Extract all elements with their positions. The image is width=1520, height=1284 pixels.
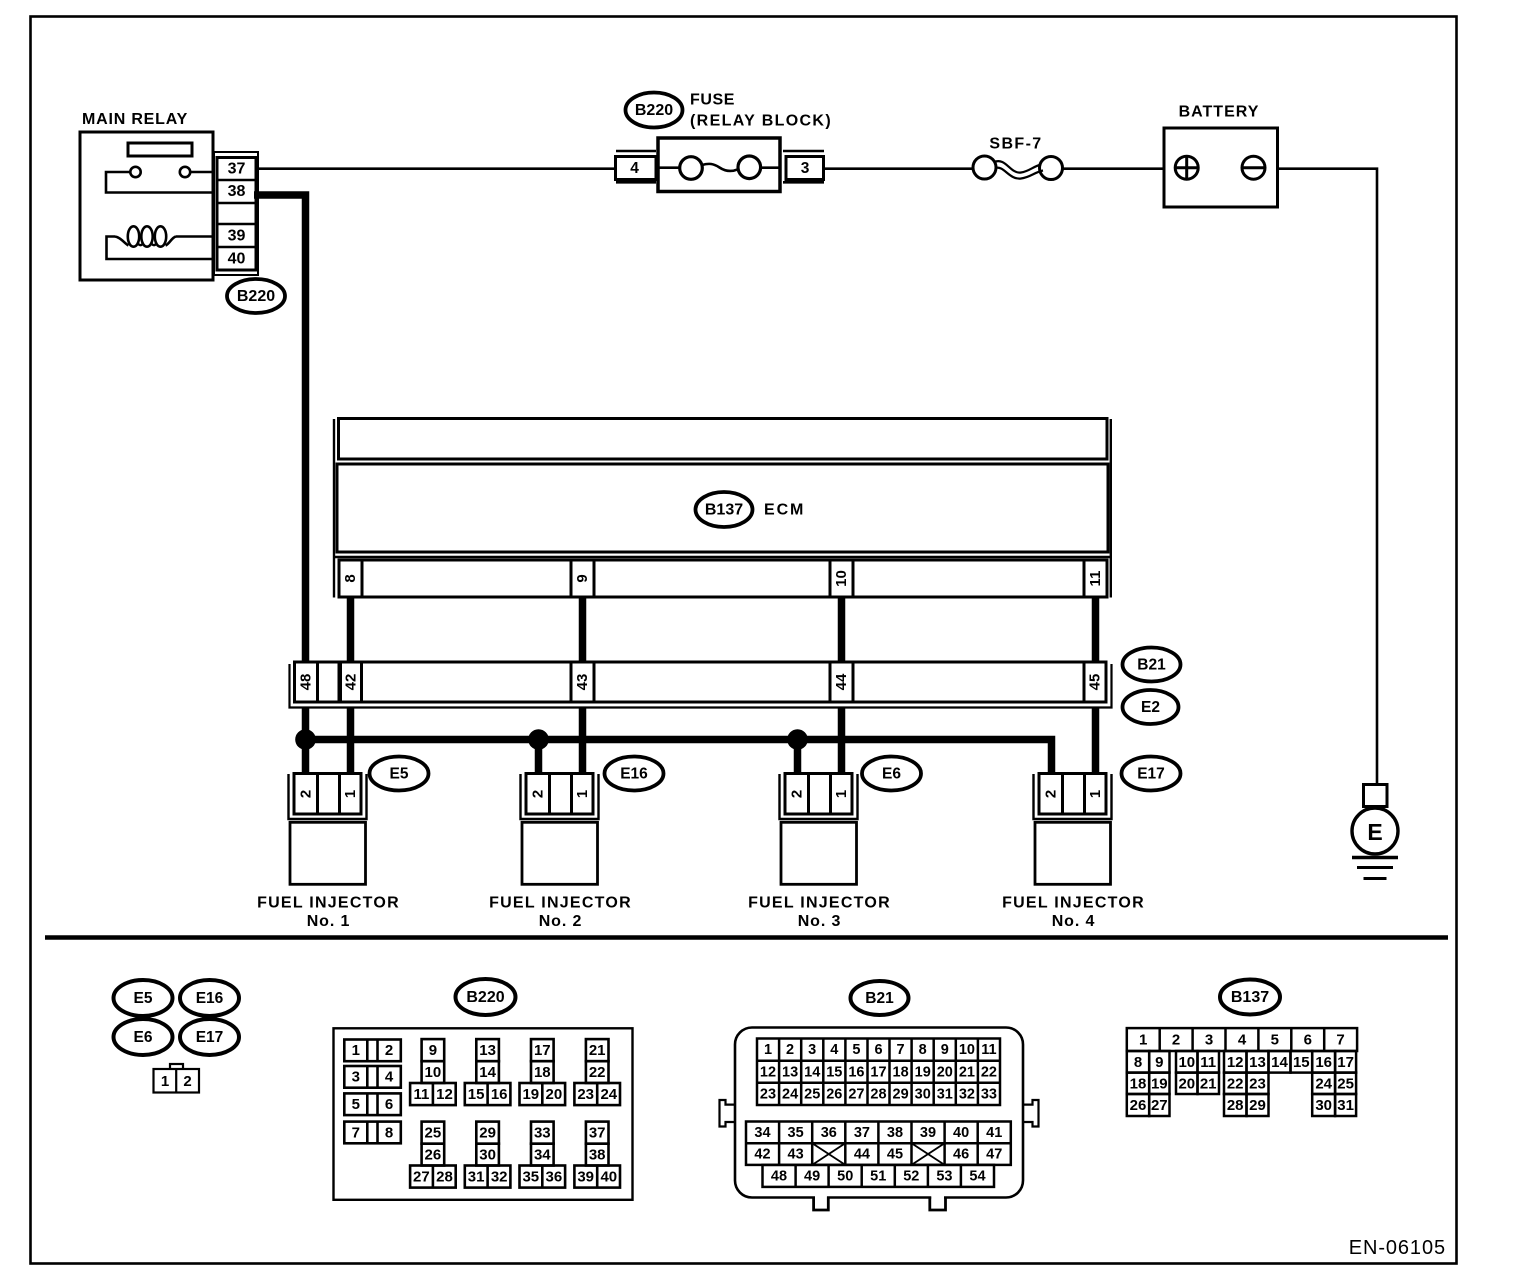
svg-text:22: 22: [1227, 1075, 1244, 1092]
svg-text:44: 44: [833, 673, 850, 690]
wire B21 to injector pin1: [347, 703, 355, 778]
svg-text:26: 26: [1130, 1097, 1147, 1114]
fuse body: [658, 138, 780, 192]
svg-text:48: 48: [771, 1168, 787, 1184]
B21 face right tab: [1023, 1100, 1039, 1127]
svg-text:14: 14: [479, 1064, 496, 1081]
svg-text:35: 35: [522, 1168, 539, 1185]
B21 connector face box: [735, 1028, 1023, 1198]
svg-text:10: 10: [833, 570, 850, 587]
relay coil L1: [128, 226, 139, 246]
B220 pins 33-36: [520, 1122, 566, 1188]
svg-text:E17: E17: [196, 1029, 224, 1046]
wire battery minus to ground drop: [1265, 169, 1377, 786]
fuel injector No. 1 connector housing: [289, 774, 367, 819]
connector E16 oval: [605, 757, 664, 791]
svg-text:7: 7: [897, 1042, 905, 1058]
svg-text:23: 23: [577, 1086, 594, 1103]
connector E2 oval: [1123, 690, 1179, 724]
svg-text:6: 6: [1304, 1032, 1312, 1049]
svg-text:38: 38: [228, 183, 246, 200]
svg-text:38: 38: [589, 1146, 606, 1163]
svg-text:4: 4: [830, 1042, 838, 1058]
relay coil bottom arc 1: [138, 244, 143, 246]
wire ECM pin drop: [838, 597, 846, 665]
svg-text:B220: B220: [635, 102, 673, 119]
B137 pins 1-7 row: [1127, 1028, 1357, 1051]
thick wire relay pin38 down left side: [254, 195, 306, 740]
B21 pins 34-47 grid: [746, 1122, 1011, 1165]
svg-text:42: 42: [343, 674, 360, 691]
B137 pins 8-17 row: [1127, 1051, 1356, 1073]
svg-text:32: 32: [959, 1086, 975, 1102]
svg-text:E17: E17: [1137, 766, 1165, 783]
section divider line: [45, 935, 1448, 940]
relay MAIN RELAY label: [82, 111, 188, 128]
svg-text:18: 18: [534, 1064, 551, 1081]
connector E5 oval (legend): [114, 980, 173, 1016]
SBF-7 link wave upper: [994, 161, 1041, 173]
svg-text:37: 37: [854, 1125, 870, 1141]
svg-text:2: 2: [1042, 790, 1059, 798]
svg-text:19: 19: [1151, 1075, 1168, 1092]
svg-text:E5: E5: [134, 990, 153, 1007]
svg-text:23: 23: [760, 1086, 776, 1102]
connector E17 oval (legend): [180, 1019, 239, 1055]
relay coil wire to pin 39: [176, 235, 213, 238]
relay coil L2: [141, 226, 152, 246]
svg-text:33: 33: [534, 1124, 551, 1141]
connector E17 oval: [1122, 757, 1181, 791]
fuel injector No. 1 connector cells: [294, 774, 361, 815]
injector pin 1: [342, 790, 359, 798]
svg-text:19: 19: [915, 1064, 931, 1080]
svg-text:22: 22: [981, 1064, 997, 1080]
wire pin37 to fuse pin4: [256, 167, 616, 170]
svg-text:14: 14: [1271, 1054, 1288, 1071]
svg-text:26: 26: [425, 1146, 442, 1163]
connector B220 oval (legend): [456, 979, 516, 1015]
relay fixed contact bar: [128, 143, 192, 156]
svg-text:34: 34: [534, 1146, 551, 1163]
B21 face left tab: [720, 1100, 736, 1127]
B220 pins 25-28: [410, 1122, 456, 1188]
svg-text:13: 13: [479, 1042, 496, 1059]
fuel injector No. 1 label: [257, 895, 400, 912]
ground bar 1: [1352, 856, 1398, 859]
svg-text:B137: B137: [705, 502, 743, 519]
svg-text:49: 49: [804, 1168, 820, 1184]
svg-text:15: 15: [826, 1064, 842, 1080]
svg-text:21: 21: [1200, 1075, 1217, 1092]
wire ECM pin drop: [1092, 597, 1100, 665]
B21 blocked cavity X: [912, 1143, 945, 1165]
wire ECM pin drop: [579, 597, 587, 665]
svg-text:1: 1: [764, 1042, 772, 1058]
figure number EN-06105: [1349, 1237, 1446, 1259]
svg-text:22: 22: [589, 1064, 606, 1081]
fuse element circle right: [738, 156, 761, 179]
wire bus to injector pin2: [794, 740, 802, 779]
svg-text:36: 36: [821, 1125, 837, 1141]
svg-text:53: 53: [936, 1168, 952, 1184]
svg-text:FUEL INJECTOR: FUEL INJECTOR: [489, 895, 632, 912]
ECM label: [764, 502, 805, 519]
ECM strip cell pin 9: [571, 560, 594, 597]
relay contact wire right to pin 37: [190, 171, 215, 174]
svg-text:38: 38: [887, 1125, 903, 1141]
fuse element circle left: [680, 157, 703, 180]
svg-text:E16: E16: [620, 766, 648, 783]
B21 strip blank cell divider: [338, 662, 341, 702]
svg-text:(RELAY BLOCK): (RELAY BLOCK): [690, 113, 832, 130]
svg-text:31: 31: [1337, 1097, 1354, 1114]
svg-text:B220: B220: [466, 989, 504, 1006]
B220 pins 9-12: [410, 1039, 456, 1105]
svg-text:30: 30: [1315, 1097, 1332, 1114]
svg-text:1: 1: [1087, 790, 1104, 798]
svg-text:17: 17: [1337, 1054, 1354, 1071]
svg-text:9: 9: [429, 1042, 437, 1059]
svg-text:54: 54: [969, 1168, 985, 1184]
fuel injector No. 3 connector housing: [780, 774, 858, 819]
svg-text:31: 31: [468, 1168, 485, 1185]
svg-text:51: 51: [870, 1168, 886, 1184]
svg-text:35: 35: [788, 1125, 804, 1141]
B220 pins 17-20: [520, 1039, 566, 1105]
svg-text:11: 11: [981, 1042, 996, 1058]
fuse element stub left: [659, 166, 681, 169]
svg-text:16: 16: [491, 1086, 508, 1103]
battery box: [1164, 128, 1278, 207]
injector connector face tab: [170, 1064, 183, 1070]
svg-text:28: 28: [870, 1086, 886, 1102]
injector pin 1: [833, 790, 850, 798]
svg-text:No. 2: No. 2: [539, 913, 583, 930]
svg-text:24: 24: [782, 1086, 798, 1102]
B21 pins 48-54 row: [763, 1165, 995, 1187]
B220 pins 21-24: [574, 1039, 620, 1105]
BATTERY label: [1179, 104, 1260, 121]
svg-text:10: 10: [959, 1042, 975, 1058]
svg-text:2: 2: [1172, 1032, 1180, 1049]
svg-text:43: 43: [574, 674, 591, 691]
connector B21 oval (legend): [851, 981, 909, 1015]
svg-text:4: 4: [385, 1069, 394, 1086]
svg-text:12: 12: [436, 1086, 453, 1103]
fuel injector No. 2 label: [489, 895, 632, 912]
B21 E2 connector strip box: [295, 662, 1107, 702]
svg-text:3: 3: [352, 1069, 360, 1086]
svg-text:BATTERY: BATTERY: [1179, 104, 1260, 121]
B220 pins 13-16: [465, 1039, 511, 1105]
svg-text:FUEL INJECTOR: FUEL INJECTOR: [257, 895, 400, 912]
svg-text:7: 7: [1336, 1032, 1344, 1049]
relay contact circle 2: [180, 167, 190, 177]
svg-text:2: 2: [297, 790, 314, 798]
svg-text:45: 45: [1087, 674, 1104, 691]
svg-text:29: 29: [893, 1086, 909, 1102]
ECM pin strip outer top line: [334, 556, 1111, 558]
injector pin 2: [1042, 790, 1059, 798]
fuel injector No. 1 body: [290, 822, 366, 884]
svg-text:B21: B21: [865, 990, 894, 1007]
B137 pins 18-25 row: [1127, 1073, 1356, 1094]
svg-text:15: 15: [468, 1086, 485, 1103]
svg-text:13: 13: [782, 1064, 798, 1080]
svg-text:30: 30: [915, 1086, 931, 1102]
fuel injector No. 3 body: [781, 822, 857, 884]
B21 face bottom tab 1: [814, 1194, 829, 1210]
svg-text:11: 11: [1087, 571, 1104, 587]
svg-text:37: 37: [228, 161, 246, 178]
svg-text:18: 18: [893, 1064, 909, 1080]
ground terminal square: [1364, 785, 1388, 807]
svg-text:9: 9: [941, 1042, 949, 1058]
svg-text:28: 28: [436, 1168, 453, 1185]
svg-text:25: 25: [425, 1124, 442, 1141]
ECM top header box: [339, 419, 1108, 460]
svg-text:11: 11: [413, 1086, 429, 1103]
B21 strip cell pin 44: [830, 662, 853, 702]
relay coil dip left: [115, 237, 129, 246]
svg-text:9: 9: [574, 574, 591, 582]
connector B137 oval: [696, 492, 753, 527]
svg-text:44: 44: [854, 1147, 870, 1163]
svg-text:2: 2: [786, 1042, 794, 1058]
fuse pin 3 rails: [783, 150, 824, 153]
thick bus wire injector pin2 net: [306, 740, 1052, 777]
wire bus to injector pin2: [535, 740, 543, 779]
svg-text:6: 6: [874, 1042, 882, 1058]
svg-text:24: 24: [1315, 1075, 1332, 1092]
svg-text:No. 1: No. 1: [307, 913, 351, 930]
svg-text:52: 52: [903, 1168, 919, 1184]
ECM outer housing right line: [1110, 419, 1112, 598]
wire B21 to injector pin1: [838, 703, 846, 778]
injector pin 1: [574, 790, 591, 798]
svg-text:2: 2: [183, 1073, 191, 1090]
svg-text:27: 27: [1151, 1097, 1168, 1114]
svg-text:18: 18: [1130, 1075, 1147, 1092]
wire ECM pin drop: [347, 597, 355, 665]
fuel injector No. 3 label: [748, 895, 891, 912]
fuel injector No. 2 connector cells: [526, 774, 593, 815]
svg-text:4: 4: [630, 160, 639, 177]
fuel injector No. 4 connector housing: [1034, 774, 1112, 819]
B220 pins 1,2: [344, 1040, 401, 1062]
svg-text:34: 34: [754, 1125, 770, 1141]
svg-text:8: 8: [385, 1124, 393, 1141]
ground bar 2: [1357, 866, 1393, 869]
svg-text:FUSE: FUSE: [690, 92, 735, 109]
fuse element wave: [702, 164, 738, 171]
fuel injector No. 3 connector cells: [785, 774, 852, 815]
svg-text:1: 1: [352, 1042, 360, 1059]
svg-text:46: 46: [953, 1147, 969, 1163]
connector B220 oval at relay: [227, 279, 285, 313]
svg-text:No. 4: No. 4: [1052, 913, 1096, 930]
relay connector cell divider: [217, 223, 256, 226]
svg-text:1: 1: [574, 790, 591, 798]
svg-text:E6: E6: [882, 766, 901, 783]
svg-text:50: 50: [837, 1168, 853, 1184]
B137 pins 26-31 row: [1127, 1094, 1356, 1116]
B220 pins 3,4: [344, 1066, 401, 1088]
svg-text:29: 29: [479, 1124, 496, 1141]
svg-text:13: 13: [1249, 1054, 1266, 1071]
svg-text:12: 12: [760, 1064, 776, 1080]
fuel injector No. 4 connector cells: [1039, 774, 1106, 815]
svg-text:6: 6: [385, 1096, 393, 1113]
svg-text:B21: B21: [1137, 657, 1166, 674]
wire bus to injector pin2: [302, 740, 310, 779]
relay box: [80, 132, 213, 280]
svg-text:12: 12: [1227, 1054, 1244, 1071]
connector B220 oval at fuse: [626, 93, 683, 128]
svg-text:26: 26: [826, 1086, 842, 1102]
SBF-7 label: [989, 136, 1042, 153]
relay connector cell divider: [217, 179, 256, 182]
injector connector face: [154, 1069, 200, 1093]
svg-text:No. 3: No. 3: [798, 913, 842, 930]
wire B21 to injector pin1: [579, 703, 587, 778]
wire junction dot: [295, 729, 316, 750]
svg-text:10: 10: [1178, 1054, 1195, 1071]
svg-text:19: 19: [522, 1086, 539, 1103]
injector pin 1: [1087, 790, 1104, 798]
svg-text:SBF-7: SBF-7: [989, 136, 1042, 153]
svg-text:29: 29: [1249, 1097, 1266, 1114]
svg-text:10: 10: [425, 1064, 442, 1081]
ECM outer housing left line: [333, 419, 335, 598]
fuse pin 4: [616, 157, 657, 180]
svg-text:8: 8: [1134, 1054, 1142, 1071]
connector E5 oval: [370, 757, 429, 791]
svg-text:21: 21: [589, 1042, 606, 1059]
svg-text:1: 1: [1139, 1032, 1147, 1049]
relay connector cell divider: [217, 202, 256, 205]
fuse element stub right: [759, 166, 779, 169]
svg-text:48: 48: [298, 674, 315, 691]
relay coil wire to pin 40: [107, 237, 214, 260]
svg-text:20: 20: [546, 1086, 563, 1103]
wire B21 to injector pin1: [1092, 703, 1100, 778]
B220 pins 29-32: [465, 1122, 511, 1188]
battery minus terminal: [1242, 156, 1265, 179]
fuel injector No. 2 body: [522, 822, 598, 884]
injector pin 2: [788, 790, 805, 798]
svg-text:20: 20: [1178, 1075, 1195, 1092]
svg-text:2: 2: [529, 790, 546, 798]
svg-text:43: 43: [788, 1147, 804, 1163]
B220 pins 7,8: [344, 1122, 401, 1144]
pin 38: [228, 183, 246, 200]
SBF-7 link wave lower: [995, 168, 1043, 179]
svg-text:2: 2: [788, 790, 805, 798]
svg-text:9: 9: [1155, 1054, 1163, 1071]
svg-text:33: 33: [981, 1086, 997, 1102]
fuel injector No. 4 label: [1002, 895, 1145, 912]
svg-text:42: 42: [754, 1147, 770, 1163]
svg-text:MAIN RELAY: MAIN RELAY: [82, 111, 188, 128]
connector B137 oval (legend): [1220, 980, 1280, 1015]
wire junction dot: [787, 729, 808, 750]
relay connector cells box: [217, 158, 256, 271]
svg-text:36: 36: [546, 1168, 563, 1185]
connector E16 oval (legend): [180, 980, 239, 1016]
relay contact circle 1: [130, 167, 140, 177]
B21 strip cell pin 42: [341, 662, 362, 702]
svg-text:39: 39: [577, 1168, 594, 1185]
svg-text:32: 32: [491, 1168, 508, 1185]
SBF-7 circle left: [973, 156, 996, 179]
svg-text:40: 40: [228, 250, 246, 267]
relay coil L3: [155, 226, 166, 246]
svg-text:1: 1: [833, 790, 850, 798]
B21 strip cell pin 43: [571, 662, 594, 702]
B21 strip cell pin 45: [1083, 662, 1086, 702]
SBF-7 circle right: [1040, 157, 1063, 180]
B220 pins 5,6: [344, 1093, 401, 1115]
svg-text:27: 27: [848, 1086, 864, 1102]
face pin 2: [183, 1073, 191, 1090]
B21 E2 connector strip outer housing: [290, 664, 1112, 708]
injector pin 2: [297, 790, 314, 798]
svg-text:1: 1: [342, 790, 359, 798]
connector B21 oval: [1123, 648, 1181, 682]
svg-text:1: 1: [161, 1073, 169, 1090]
svg-text:3: 3: [801, 160, 810, 177]
svg-text:20: 20: [937, 1064, 953, 1080]
svg-text:27: 27: [413, 1168, 430, 1185]
svg-text:5: 5: [852, 1042, 860, 1058]
wire SBF-7 to battery: [1063, 167, 1166, 170]
svg-text:40: 40: [600, 1168, 617, 1185]
svg-text:31: 31: [937, 1086, 953, 1102]
svg-text:3: 3: [808, 1042, 816, 1058]
fuel injector No. 2 connector housing: [521, 774, 599, 819]
svg-text:7: 7: [352, 1124, 360, 1141]
svg-text:30: 30: [479, 1146, 496, 1163]
svg-text:40: 40: [953, 1125, 969, 1141]
svg-text:47: 47: [986, 1147, 1002, 1163]
B21 strip cell pin 48: [316, 662, 319, 702]
fuse pin 3: [786, 157, 824, 180]
connector E6 oval: [862, 757, 921, 791]
B21 pins 1-33 grid: [757, 1039, 1000, 1106]
svg-text:E16: E16: [196, 990, 224, 1007]
svg-text:39: 39: [920, 1125, 936, 1141]
svg-text:17: 17: [870, 1064, 886, 1080]
svg-text:EN-06105: EN-06105: [1349, 1237, 1446, 1259]
svg-text:ECM: ECM: [764, 502, 805, 519]
fuel injector No. 4 body: [1035, 822, 1111, 884]
svg-text:3: 3: [1205, 1032, 1213, 1049]
svg-text:8: 8: [919, 1042, 927, 1058]
battery plus terminal: [1175, 156, 1198, 179]
pin 39: [228, 227, 246, 244]
svg-text:E6: E6: [134, 1029, 153, 1046]
ECM main box: [337, 464, 1108, 552]
svg-text:16: 16: [1315, 1054, 1332, 1071]
B21 blocked cavity X: [812, 1143, 845, 1165]
B220 connector face box: [334, 1028, 633, 1200]
ECM strip cell pin 11: [1083, 560, 1086, 597]
ECM pin strip box: [339, 560, 1107, 597]
svg-text:37: 37: [589, 1124, 606, 1141]
relay coil bottom arc 2: [152, 244, 157, 246]
